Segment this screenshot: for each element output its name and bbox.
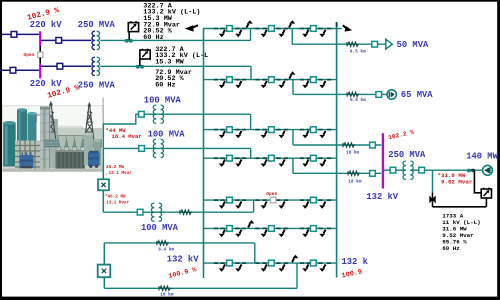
- arrow flow F1 right: [343, 25, 352, 31]
- wire meter loop left link: [474, 170, 481, 193]
- line symbol 16km: [159, 286, 171, 290]
- transformer T1 250 MVA: [92, 31, 95, 49]
- breaker CB-A2: [10, 67, 16, 73]
- breaker CB-T3: [139, 111, 145, 117]
- riser T4 to feeder F4: [250, 148, 252, 158]
- wire meter M1 pole: [128, 32, 130, 40]
- breaker CB-B1: [56, 38, 62, 44]
- svg-text:13.1 Mvar: 13.1 Mvar: [106, 201, 130, 206]
- svg-text:132 kV: 132 kV: [366, 192, 398, 202]
- svg-text:16 km: 16 km: [160, 292, 174, 297]
- feeder F6: [204, 255, 337, 272]
- riser loop to F6 b: [296, 263, 298, 288]
- wire T2 output: [100, 65, 251, 67]
- meter M2: [140, 49, 150, 59]
- line symbol 18km B: [348, 171, 360, 175]
- svg-text:100 MVA: 100 MVA: [148, 129, 186, 139]
- transformer T3 100 MVA: [153, 105, 156, 123]
- wire bus to T6: [384, 169, 390, 171]
- wire meter M2 pole: [139, 59, 141, 66]
- svg-text:140 MW: 140 MW: [466, 152, 498, 162]
- line symbol 6.5km A: [347, 42, 359, 46]
- breaker CB-T6a: [390, 167, 396, 173]
- breaker CB-L3: [370, 142, 376, 148]
- line symbol 6.5km B: [347, 92, 359, 96]
- transformer T6 250 MVA: [403, 161, 406, 179]
- tap dot generator meter: [467, 169, 471, 173]
- breaker CB-T4: [139, 146, 145, 152]
- wire bus to T1: [41, 39, 91, 41]
- line reactor T5: [180, 210, 192, 214]
- wire T3 left elbow: [103, 114, 138, 124]
- breaker CB-L2: [376, 92, 382, 98]
- feeder F1: [204, 20, 337, 37]
- breaker CB-L1: [372, 41, 378, 47]
- breaker CB-T5: [137, 209, 143, 215]
- riser F4 to line 18km B: [292, 158, 294, 173]
- wire 18km line A: [293, 144, 381, 146]
- svg-text:8.4 km: 8.4 km: [158, 247, 174, 252]
- riser loop to F6 a: [254, 243, 256, 263]
- svg-text:60 Hz: 60 Hz: [442, 245, 460, 252]
- power plant photo: [2, 98, 103, 172]
- bus tie vertical right: [336, 22, 338, 278]
- meter M4: [481, 188, 491, 198]
- wire utility line 1: [2, 33, 39, 35]
- transformer T5 100 MVA: [151, 203, 154, 221]
- feeder F2: [204, 71, 337, 88]
- wire plant column lower: [102, 190, 104, 212]
- breaker CB-T6b: [419, 167, 425, 173]
- meter M1: [128, 22, 138, 32]
- feeder F5: [204, 220, 337, 237]
- svg-text:,13.1 Mvar: ,13.1 Mvar: [106, 171, 132, 176]
- svg-text:18 km: 18 km: [348, 180, 362, 185]
- wire tie stub lower: [39, 58, 41, 64]
- wire T6 to generator: [424, 169, 482, 171]
- wire gen CT drop teal: [432, 170, 434, 192]
- text block generator readings: [442, 212, 480, 252]
- svg-text:Open: Open: [266, 191, 277, 197]
- svg-text:Open: Open: [24, 52, 35, 58]
- wire T1 output: [100, 39, 250, 41]
- svg-text:18.4 Mvar: 18.4 Mvar: [112, 133, 142, 140]
- motor 65 MVA: [387, 90, 396, 99]
- arrow flow F1 left: [185, 25, 198, 31]
- riser F3 to line 18km A: [292, 130, 294, 145]
- wire T6 a: [396, 169, 404, 171]
- wire line to 50 MVA: [292, 43, 386, 45]
- svg-text:*46.2 MW: *46.2 MW: [105, 194, 126, 199]
- fuse symbol: [430, 197, 436, 203]
- svg-text:250 MVA: 250 MVA: [78, 20, 116, 30]
- bus 132 kV: [382, 133, 384, 188]
- svg-text:50 MVA: 50 MVA: [397, 40, 429, 50]
- bus tie vertical left: [203, 28, 205, 278]
- riser T5 to feeder F7: [253, 200, 255, 212]
- riser T2 to feeder F2: [250, 66, 252, 79]
- svg-text:100 MVA: 100 MVA: [144, 95, 182, 105]
- tap dot meter M2: [136, 65, 140, 69]
- bus 220 kV lower section: [39, 64, 41, 79]
- wire T5 output: [103, 211, 253, 213]
- wire gen CT drop black: [432, 192, 434, 206]
- svg-text:250 MVA: 250 MVA: [388, 150, 426, 160]
- line symbol 8.4km: [157, 241, 169, 245]
- riser F2 to 65MVA line: [292, 80, 294, 95]
- svg-text:250 MVA: 250 MVA: [78, 80, 116, 90]
- breaker CB-L4: [370, 171, 376, 177]
- svg-text:100 MVA: 100 MVA: [141, 223, 179, 233]
- svg-text:6.5 km: 6.5 km: [350, 98, 366, 103]
- wire tie stub upper: [39, 46, 41, 52]
- riser T3 to feeder F3: [250, 114, 252, 129]
- wire gen meter tap: [471, 169, 474, 171]
- wire T4 output: [103, 147, 250, 149]
- bus 220 kV upper section: [39, 31, 41, 46]
- switch X2: [98, 265, 111, 278]
- feeder F4: [204, 155, 337, 167]
- load 50 MVA: [386, 39, 393, 49]
- svg-text:65 MVA: 65 MVA: [401, 90, 433, 100]
- wire loop bottom: [104, 287, 297, 289]
- feeder F7 open: [204, 197, 337, 209]
- wire 18km line B: [293, 172, 381, 174]
- wire plant column upper: [102, 124, 104, 179]
- riser T1 to feeder F1: [250, 29, 252, 41]
- breaker CB-B2: [57, 63, 63, 69]
- feeder F3: [204, 127, 337, 139]
- svg-text:46.2 MW: 46.2 MW: [106, 165, 124, 170]
- svg-text:132 kV: 132 kV: [167, 255, 199, 265]
- svg-text:9.52 Mvar: 9.52 Mvar: [441, 178, 473, 185]
- svg-text:132 k: 132 k: [342, 257, 369, 267]
- breaker tie open: [38, 52, 43, 57]
- tap dot meter M1: [125, 39, 129, 43]
- wire T6 b: [413, 169, 419, 171]
- generator 140 MW: [483, 165, 493, 175]
- text block T1 readings: [143, 2, 200, 42]
- riser F1 to 50MVA line: [291, 29, 293, 45]
- wire meter loop bottom: [433, 206, 487, 208]
- svg-text:60 Hz: 60 Hz: [143, 34, 163, 42]
- line symbol 18km A: [343, 143, 355, 147]
- breaker CB-A1: [11, 32, 17, 38]
- transformer T4 100 MVA: [153, 139, 156, 157]
- wire loop left lower: [103, 277, 105, 288]
- wire T3 output: [144, 113, 250, 115]
- switch X1: [98, 179, 109, 190]
- svg-text:220 kV: 220 kV: [30, 20, 62, 30]
- wire meter loop right: [485, 198, 487, 207]
- wire bus to T2: [41, 65, 91, 67]
- dash on right vertical top: [336, 22, 338, 27]
- svg-text:15.3 MW: 15.3 MW: [155, 58, 184, 66]
- svg-text:60 Hz: 60 Hz: [155, 82, 175, 90]
- wire loop top: [104, 242, 255, 244]
- svg-text:18 km: 18 km: [346, 150, 360, 155]
- svg-text:6.5 km: 6.5 km: [350, 49, 366, 54]
- svg-text:220 kV: 220 kV: [30, 79, 62, 89]
- wire utility line 2: [2, 69, 39, 71]
- transformer T2 250 MVA: [92, 57, 95, 75]
- wire loop left upper: [103, 243, 105, 265]
- wire F1 right stub: [337, 28, 342, 30]
- text block T2 readings: [155, 46, 208, 90]
- wire line to 65 MVA: [293, 93, 387, 95]
